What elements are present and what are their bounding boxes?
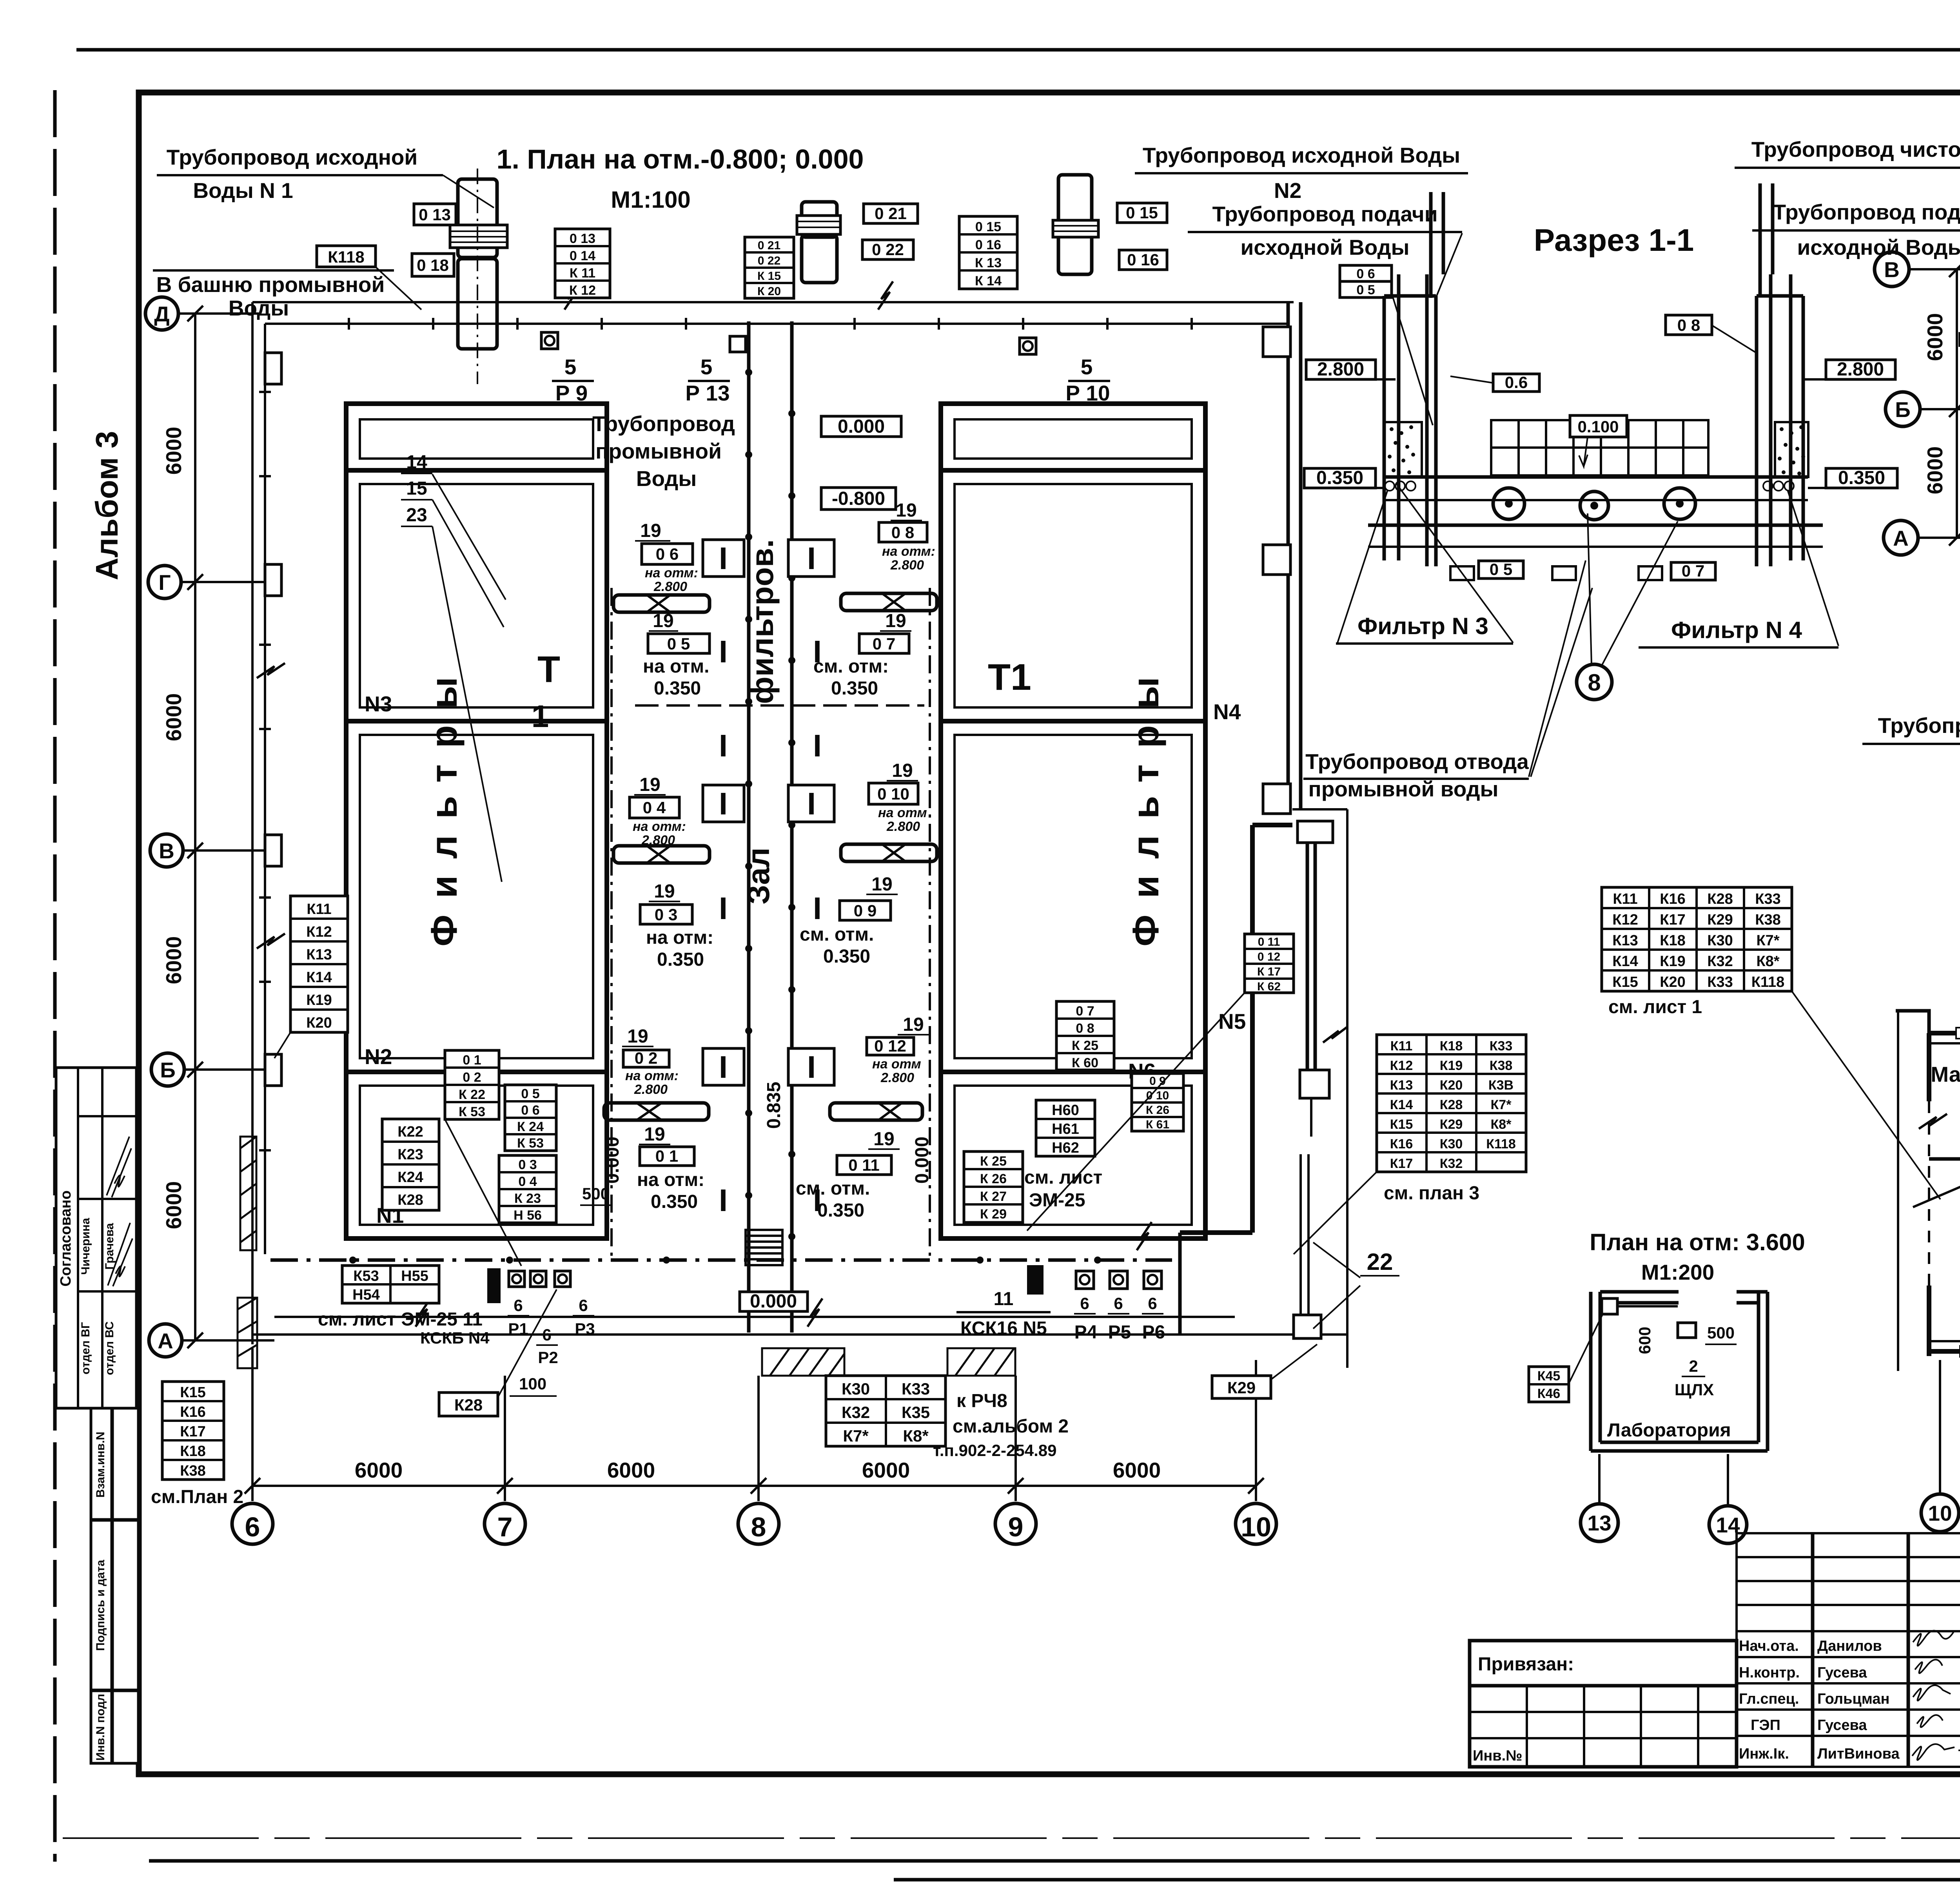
sidebar approval table: Согласовано — [56, 1068, 136, 1408]
svg-text:1: 1 — [532, 699, 549, 734]
svg-text:Трубопровод исходной Воды: Трубопровод исходной Воды — [1143, 143, 1460, 167]
svg-text:Т1: Т1 — [988, 656, 1031, 698]
svg-text:Т: Т — [537, 649, 560, 690]
svg-text:Трубопровод чистой Воды: Трубопровод чистой Воды — [1878, 713, 1960, 738]
svg-text:I: I — [807, 541, 816, 576]
svg-text:Инв.N подл: Инв.N подл — [94, 1694, 107, 1761]
svg-text:К 25: К 25 — [1072, 1038, 1098, 1053]
svg-text:К 25: К 25 — [980, 1154, 1007, 1169]
table 01/02/К22/К53 — [445, 1050, 499, 1119]
svg-text:Мастерская: Мастерская — [1931, 1062, 1960, 1086]
valve row3 right pipe — [830, 1103, 922, 1120]
elevation line 0.350 left — [1304, 468, 1376, 488]
svg-text:0 6: 0 6 — [521, 1103, 539, 1118]
svg-text:Зал: Зал — [741, 847, 776, 904]
base feet — [1450, 566, 1662, 580]
svg-text:11: 11 — [994, 1289, 1014, 1309]
svg-text:0 16: 0 16 — [1127, 250, 1159, 269]
label box 0.000 top — [821, 416, 901, 437]
svg-text:0 6: 0 6 — [656, 545, 679, 563]
svg-text:В башню промывной: В башню промывной — [156, 272, 385, 297]
svg-text:2.800: 2.800 — [890, 558, 924, 573]
label box 0.000 bottom — [740, 1292, 808, 1311]
svg-text:К 60: К 60 — [1072, 1055, 1098, 1070]
axis circle А — [1884, 520, 1918, 555]
svg-text:К 15: К 15 — [757, 270, 781, 283]
svg-text:2.800: 2.800 — [641, 833, 675, 848]
svg-text:К3В: К3В — [1488, 1078, 1514, 1093]
svg-text:К15: К15 — [1390, 1117, 1413, 1132]
label box К29 — [1212, 1376, 1271, 1398]
svg-text:2: 2 — [1689, 1357, 1698, 1375]
svg-text:I: I — [719, 891, 728, 926]
svg-text:6000: 6000 — [1923, 446, 1947, 494]
label box 015 — [1117, 203, 1167, 223]
svg-text:19: 19 — [644, 1124, 665, 1145]
svg-text:К 14: К 14 — [975, 274, 1002, 288]
svg-text:К16: К16 — [180, 1404, 205, 1420]
svg-text:500: 500 — [1707, 1324, 1735, 1342]
svg-text:К38: К38 — [1755, 912, 1780, 928]
svg-text:19: 19 — [896, 500, 916, 521]
svg-text:0.350: 0.350 — [654, 678, 701, 699]
vertical cable run right of corridor — [929, 588, 931, 1260]
svg-text:1. План на отм.-0.800; 0.000: 1. План на отм.-0.800; 0.000 — [497, 144, 864, 174]
svg-text:на отм:: на отм: — [646, 927, 713, 948]
svg-text:К8*: К8* — [1491, 1117, 1512, 1132]
svg-text:К 17: К 17 — [1257, 965, 1281, 978]
svg-text:К12: К12 — [1612, 912, 1638, 928]
svg-text:Б: Б — [160, 1058, 176, 1082]
valve row2 left pipe — [613, 846, 710, 863]
svg-text:Фильтры: Фильтры — [1125, 660, 1167, 947]
left filter block outer — [346, 404, 607, 1238]
svg-text:К118: К118 — [1751, 974, 1785, 990]
svg-text:К 27: К 27 — [980, 1189, 1007, 1204]
svg-text:К16: К16 — [1390, 1137, 1413, 1151]
svg-text:6: 6 — [542, 1326, 551, 1344]
svg-text:100: 100 — [519, 1374, 546, 1393]
axis circle 9 — [995, 1503, 1036, 1544]
I-beam pair boxes row3 — [703, 1048, 744, 1085]
svg-text:0.000: 0.000 — [750, 1291, 797, 1312]
svg-text:К 11: К 11 — [570, 266, 595, 281]
svg-text:6000: 6000 — [162, 693, 186, 741]
bottom dim line — [252, 1485, 1256, 1487]
svg-text:К33: К33 — [1490, 1039, 1513, 1054]
svg-text:К15: К15 — [1612, 974, 1638, 990]
svg-text:I: I — [807, 1050, 816, 1084]
svg-text:0 15: 0 15 — [975, 219, 1001, 234]
left step corner — [1896, 1011, 1929, 1033]
right filter wall structure — [1757, 274, 1803, 566]
table 011/012/К17/К62 — [1245, 934, 1294, 993]
svg-text:см. отм.: см. отм. — [796, 1178, 870, 1199]
svg-text:Н60: Н60 — [1052, 1102, 1079, 1119]
vertical cable run left of corridor — [610, 588, 613, 1260]
axis dim line left — [194, 314, 196, 1340]
svg-text:19: 19 — [871, 874, 892, 895]
small square sensors on wall — [541, 332, 558, 349]
svg-text:6000: 6000 — [1923, 313, 1947, 361]
axis circle В — [150, 834, 183, 867]
svg-text:N2: N2 — [1274, 178, 1301, 203]
svg-text:0 11: 0 11 — [1258, 936, 1280, 948]
svg-text:К16: К16 — [1660, 891, 1685, 907]
svg-text:К 12: К 12 — [569, 283, 596, 298]
svg-text:К19: К19 — [306, 992, 332, 1008]
svg-text:КСК16 N5: КСК16 N5 — [960, 1318, 1047, 1339]
svg-text:I: I — [813, 891, 822, 926]
box 0.7 below right — [1671, 562, 1715, 580]
right annex wall — [1292, 808, 1347, 811]
building bottom wall — [252, 1333, 1347, 1336]
svg-text:Р 10: Р 10 — [1065, 381, 1110, 405]
svg-text:К11: К11 — [307, 901, 331, 918]
svg-text:0 18: 0 18 — [417, 256, 449, 274]
svg-text:К38: К38 — [180, 1463, 205, 1479]
right riser pipe — [1759, 183, 1762, 296]
svg-text:фильтров.: фильтров. — [745, 539, 780, 704]
svg-text:7: 7 — [497, 1512, 513, 1542]
plan2 dim ticks — [1949, 261, 1960, 643]
svg-text:К38: К38 — [1490, 1058, 1513, 1073]
svg-text:I: I — [719, 634, 728, 669]
svg-text:К18: К18 — [1440, 1039, 1463, 1054]
svg-text:0.835: 0.835 — [764, 1082, 784, 1129]
svg-text:0 13: 0 13 — [570, 231, 595, 246]
svg-text:0 5: 0 5 — [667, 635, 690, 653]
corridor stairs — [746, 1230, 782, 1265]
svg-text:Трубопровод исходной: Трубопровод исходной — [167, 145, 417, 169]
svg-text:0 14: 0 14 — [570, 248, 595, 263]
right stipple filter media — [1775, 422, 1808, 477]
table 09/010/К26/К61 — [1132, 1073, 1183, 1131]
label box 016 — [1119, 250, 1167, 270]
svg-text:К33: К33 — [902, 1380, 930, 1398]
svg-text:К 53: К 53 — [517, 1136, 544, 1151]
svg-text:8: 8 — [751, 1512, 766, 1542]
svg-text:К30: К30 — [1707, 932, 1733, 949]
svg-text:Гусева: Гусева — [1817, 1717, 1867, 1733]
window ticks top wall — [1956, 1028, 1960, 1357]
left big table 4x5 — [1602, 887, 1792, 991]
svg-text:Данилов: Данилов — [1817, 1638, 1882, 1654]
svg-text:К32: К32 — [1707, 953, 1733, 970]
svg-text:0.000: 0.000 — [912, 1137, 933, 1184]
pipe 3 crossing top wall — [1058, 175, 1092, 274]
svg-text:0.350: 0.350 — [1838, 468, 1885, 488]
signatures squiggles — [107, 1137, 131, 1197]
svg-text:0.000: 0.000 — [838, 416, 885, 437]
svg-text:К118: К118 — [328, 248, 364, 266]
cable + dims — [1617, 1305, 1678, 1307]
label box К118 — [317, 246, 376, 267]
corridor walls (Зал фильтров) — [747, 321, 751, 1333]
svg-text:2.800: 2.800 — [886, 819, 920, 834]
svg-text:Инв.№: Инв.№ — [1473, 1748, 1523, 1764]
svg-text:А: А — [158, 1329, 173, 1353]
box 0.8 right — [1666, 315, 1712, 335]
vertical dim line — [1956, 269, 1958, 538]
svg-text:0 21: 0 21 — [758, 239, 780, 252]
svg-text:Н 56: Н 56 — [514, 1208, 542, 1223]
table Н60/Н61/Н62 — [1036, 1100, 1095, 1156]
svg-text:0 13: 0 13 — [419, 205, 451, 224]
svg-text:К18: К18 — [1660, 932, 1685, 949]
svg-text:К11: К11 — [1613, 891, 1637, 907]
svg-text:6000: 6000 — [1113, 1458, 1161, 1482]
svg-text:К13: К13 — [306, 947, 332, 963]
device square top-left — [1602, 1298, 1617, 1314]
left small circles (gravel) — [1385, 481, 1416, 491]
svg-text:19: 19 — [639, 774, 660, 795]
building right wall upper — [1287, 302, 1290, 809]
outer sheet border bottom — [149, 1859, 1960, 1863]
svg-text:т.п.902-2-254.89: т.п.902-2-254.89 — [933, 1441, 1056, 1460]
svg-text:9: 9 — [1008, 1512, 1024, 1542]
elevation line 2.800 left — [1306, 360, 1376, 379]
lower-left grid — [1470, 1686, 1737, 1767]
elevation 0.350 right — [1826, 468, 1897, 488]
svg-text:19: 19 — [885, 611, 906, 631]
label box 022 — [862, 240, 913, 259]
svg-text:Р3: Р3 — [575, 1320, 595, 1338]
svg-text:Р6: Р6 — [1142, 1322, 1165, 1343]
svg-text:К45: К45 — [1537, 1369, 1561, 1384]
svg-text:Н54: Н54 — [352, 1287, 380, 1303]
svg-text:0.6: 0.6 — [1505, 373, 1528, 392]
break marks (zigzag) — [257, 281, 1960, 1327]
svg-text:Лаборатория: Лаборатория — [1607, 1420, 1731, 1441]
right block inner rects — [955, 419, 1192, 459]
svg-text:0.350: 0.350 — [657, 949, 704, 970]
svg-text:Н.контр.: Н.контр. — [1739, 1665, 1800, 1681]
svg-text:Взам.инв.N: Взам.инв.N — [94, 1432, 107, 1498]
corridor dots — [745, 369, 795, 1240]
table 03/04/К23/Н56 — [499, 1155, 556, 1223]
svg-text:Р4: Р4 — [1074, 1322, 1098, 1343]
svg-text:КСК-8N3: КСК-8N3 — [1957, 327, 1960, 352]
box 0.6 mid — [1493, 374, 1539, 392]
svg-text:0 2: 0 2 — [463, 1070, 481, 1085]
svg-text:К7*: К7* — [1491, 1097, 1512, 1112]
svg-text:К 13: К 13 — [975, 256, 1002, 270]
axis circle 7 — [485, 1503, 525, 1544]
svg-text:К 26: К 26 — [1146, 1104, 1169, 1117]
svg-text:10: 10 — [1241, 1512, 1271, 1542]
svg-text:8: 8 — [1588, 669, 1601, 696]
svg-text:0.100: 0.100 — [1577, 417, 1619, 436]
svg-text:2.800: 2.800 — [1837, 359, 1884, 380]
svg-text:ГЭП: ГЭП — [1751, 1717, 1780, 1733]
svg-text:Фильтр N 4: Фильтр N 4 — [1671, 617, 1802, 643]
left wall hatched piers — [238, 1137, 257, 1368]
svg-text:см.альбом 2: см.альбом 2 — [953, 1416, 1069, 1437]
svg-text:Согласовано: Согласовано — [58, 1190, 74, 1286]
svg-text:6000: 6000 — [355, 1458, 403, 1482]
outer sheet border top — [76, 48, 1960, 52]
svg-text:0.000: 0.000 — [602, 1137, 623, 1184]
svg-text:I: I — [807, 786, 816, 821]
table К53 Н55 / Н54 — [342, 1266, 439, 1303]
svg-text:0.350: 0.350 — [823, 946, 870, 967]
svg-text:Фильтры: Фильтры — [423, 660, 465, 947]
svg-text:Гл.спец.: Гл.спец. — [1739, 1691, 1799, 1707]
svg-text:2.800: 2.800 — [634, 1082, 668, 1097]
floor slab lines — [1384, 475, 1808, 479]
svg-text:отдел ВГ: отдел ВГ — [79, 1322, 92, 1374]
svg-text:Подпись и дата: Подпись и дата — [94, 1559, 107, 1651]
svg-text:15: 15 — [406, 478, 427, 499]
svg-text:К 53: К 53 — [459, 1104, 485, 1119]
table 013/014/К11/К12 — [555, 229, 610, 298]
svg-text:К14: К14 — [1390, 1097, 1413, 1112]
svg-text:К7*: К7* — [843, 1427, 869, 1445]
elevation 2.800 right — [1826, 360, 1895, 379]
sidebar lower table — [91, 1408, 138, 1763]
svg-text:см. лист ЭМ-25 11: см. лист ЭМ-25 11 — [318, 1309, 483, 1330]
stack boxes 0.6 / 0.5 — [1340, 265, 1392, 281]
axis circle 6 — [232, 1503, 273, 1544]
svg-text:0.350: 0.350 — [651, 1191, 698, 1212]
svg-text:Г: Г — [158, 570, 171, 595]
svg-text:К33: К33 — [1707, 974, 1733, 990]
horizontal cable line at N3/N2 — [635, 704, 924, 707]
svg-text:6000: 6000 — [607, 1458, 655, 1482]
svg-text:Р5: Р5 — [1108, 1322, 1131, 1343]
svg-text:23: 23 — [406, 505, 427, 526]
svg-text:Д: Д — [154, 302, 169, 326]
svg-text:Трубопровод подачи: Трубопровод подачи — [1212, 202, 1437, 226]
valve row3 left pipe — [604, 1103, 709, 1120]
svg-text:ЛитВинова: ЛитВинова — [1817, 1746, 1900, 1762]
svg-text:В: В — [1884, 257, 1900, 282]
svg-text:к РЧ8: к РЧ8 — [956, 1391, 1007, 1411]
I-beam pair boxes row1 — [703, 540, 744, 577]
svg-text:К18: К18 — [180, 1443, 205, 1460]
svg-text:0 12: 0 12 — [874, 1037, 906, 1055]
svg-text:см. лист 1: см. лист 1 — [1608, 997, 1702, 1017]
svg-text:на отм:: на отм: — [625, 1068, 679, 1083]
svg-text:К12: К12 — [1390, 1058, 1413, 1073]
circled 8 — [1577, 664, 1612, 700]
label box К28 — [439, 1393, 498, 1416]
svg-text:Чичерина: Чичерина — [79, 1218, 92, 1275]
svg-text:К32: К32 — [1440, 1156, 1463, 1171]
svg-text:0 11: 0 11 — [848, 1156, 879, 1174]
svg-text:на отм:: на отм: — [645, 566, 698, 580]
svg-text:Инж.Iк.: Инж.Iк. — [1739, 1746, 1789, 1762]
svg-text:0 6: 0 6 — [1356, 267, 1375, 281]
svg-text:0 4: 0 4 — [643, 798, 666, 817]
svg-text:Фильтр N 3: Фильтр N 3 — [1357, 613, 1488, 639]
axis circle Б — [1886, 392, 1920, 426]
svg-text:2.800: 2.800 — [653, 579, 687, 594]
svg-text:К14: К14 — [1612, 953, 1638, 970]
svg-text:5: 5 — [701, 355, 713, 379]
hatched floor slabs below bottom wall — [762, 1348, 1015, 1376]
svg-text:5: 5 — [564, 355, 577, 379]
svg-text:К 26: К 26 — [980, 1171, 1007, 1186]
svg-text:К20: К20 — [1440, 1078, 1463, 1093]
svg-text:N3: N3 — [365, 692, 392, 716]
box 0.100 — [1570, 415, 1627, 437]
svg-text:см. отм:: см. отм: — [813, 656, 889, 677]
svg-text:N5: N5 — [1218, 1009, 1246, 1034]
svg-text:К19: К19 — [1660, 953, 1685, 970]
svg-text:К19: К19 — [1440, 1058, 1463, 1073]
svg-text:0 3: 0 3 — [518, 1157, 537, 1172]
svg-text:ЩЛХ: ЩЛХ — [1675, 1380, 1714, 1399]
svg-text:К 22: К 22 — [459, 1087, 485, 1102]
svg-text:К28: К28 — [397, 1192, 423, 1208]
svg-text:0 9: 0 9 — [854, 901, 877, 920]
bottom cable tray line — [270, 1258, 1172, 1262]
svg-text:6: 6 — [514, 1296, 523, 1315]
table 021/022/К15/К20 — [745, 237, 794, 298]
svg-text:М1:200: М1:200 — [1641, 1260, 1714, 1284]
svg-text:К28: К28 — [1440, 1097, 1463, 1112]
svg-text:N4: N4 — [1213, 700, 1241, 724]
svg-text:6: 6 — [245, 1512, 260, 1542]
svg-text:КСКБ N4: КСКБ N4 — [420, 1329, 490, 1347]
svg-text:0 3: 0 3 — [655, 905, 677, 924]
pipe 2 crossing top wall — [802, 202, 837, 283]
svg-text:М1:100: М1:100 — [611, 187, 690, 213]
pipe 1 crossing top wall — [458, 179, 497, 349]
svg-text:0.350: 0.350 — [817, 1200, 864, 1221]
building top wall — [252, 301, 1294, 303]
staff grid horizontals — [1737, 1557, 1960, 1736]
svg-text:К11: К11 — [1390, 1039, 1413, 1054]
left dim line — [1897, 1011, 1899, 1371]
svg-text:промывной: промывной — [595, 439, 722, 463]
svg-text:Гусева: Гусева — [1817, 1665, 1867, 1681]
svg-text:на отм:: на отм: — [882, 544, 935, 559]
svg-text:I: I — [813, 728, 822, 763]
svg-text:на отм:: на отм: — [633, 819, 686, 834]
inner wall right lower — [1250, 825, 1255, 1233]
svg-text:0 1: 0 1 — [463, 1053, 481, 1068]
bottom fold line — [63, 1837, 1960, 1839]
svg-text:К8*: К8* — [903, 1427, 929, 1445]
svg-text:К20: К20 — [306, 1015, 332, 1031]
small plan building — [1591, 1292, 1768, 1451]
axis circle А — [149, 1324, 182, 1357]
table К15..К38 (см.План 2) — [162, 1382, 224, 1480]
svg-text:К20: К20 — [1660, 974, 1685, 990]
svg-text:В: В — [159, 839, 174, 863]
svg-text:К118: К118 — [1486, 1137, 1516, 1151]
cable polyline inside plan3 — [1913, 1170, 1960, 1207]
svg-text:6000: 6000 — [162, 1181, 186, 1229]
svg-text:19: 19 — [654, 881, 675, 902]
svg-text:13: 13 — [1587, 1511, 1611, 1535]
svg-text:Трубопровод: Трубопровод — [592, 412, 735, 436]
inner wall line ticks top — [259, 318, 1192, 1150]
right wall pilasters — [1263, 327, 1290, 357]
svg-text:19: 19 — [653, 611, 673, 631]
svg-text:К28: К28 — [1707, 891, 1733, 907]
svg-text:см. отм.: см. отм. — [800, 924, 874, 945]
svg-text:К13: К13 — [1390, 1078, 1413, 1093]
svg-text:К22: К22 — [397, 1124, 423, 1140]
svg-text:6000: 6000 — [162, 936, 186, 984]
svg-text:Воды: Воды — [229, 296, 289, 320]
svg-text:К14: К14 — [306, 969, 332, 986]
svg-text:К28: К28 — [454, 1396, 483, 1414]
